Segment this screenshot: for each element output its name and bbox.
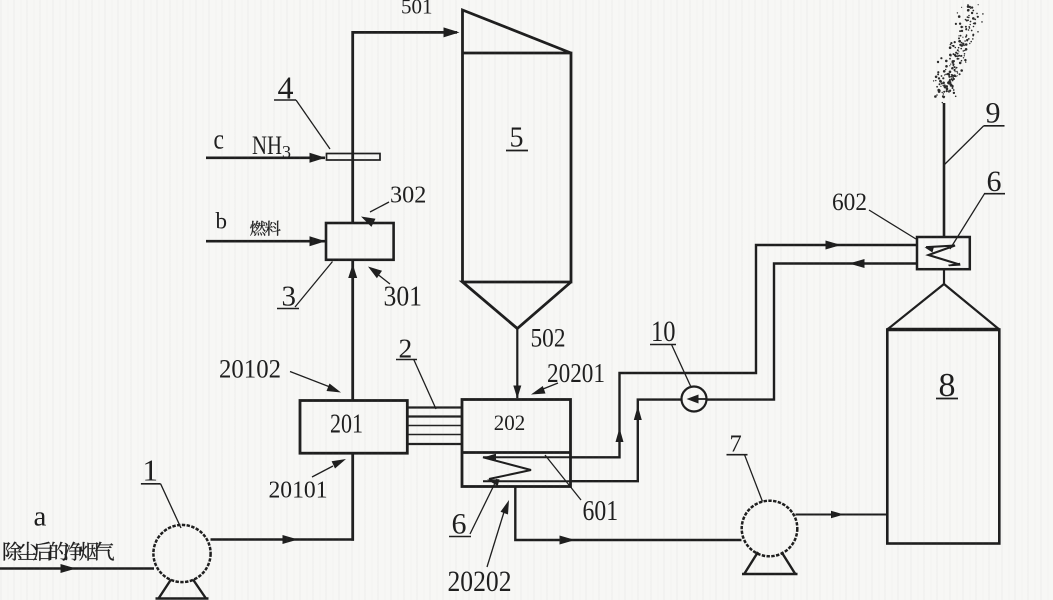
wire: main flue riser	[353, 32, 457, 540]
coil 601	[483, 457, 571, 481]
wire: fan1 discharge to riser	[211, 538, 355, 541]
svg-text:601: 601	[583, 496, 619, 527]
wire: 202 to 602 upper line	[571, 245, 918, 457]
smoke plume from chimney 9	[933, 4, 984, 103]
label: fuel	[250, 221, 281, 236]
wire: pump 7 discharge to vessel 8	[796, 514, 888, 516]
svg-text:b: b	[216, 209, 228, 234]
svg-text:6: 6	[452, 508, 467, 541]
svg-text:1: 1	[143, 453, 159, 488]
svg-text:a: a	[34, 501, 47, 533]
svg-text:201: 201	[330, 408, 363, 439]
pump 7	[742, 501, 798, 557]
svg-text:20101: 20101	[269, 477, 328, 504]
svg-text:9: 9	[986, 97, 1001, 130]
svg-text:10: 10	[651, 315, 676, 348]
circulation device 10	[682, 387, 707, 412]
label: dedusted clean flue gas	[4, 542, 114, 561]
svg-text:502: 502	[531, 324, 566, 353]
quench vessel 202	[462, 400, 571, 487]
burner 3	[326, 223, 394, 260]
wire: inlet flue-gas line a	[0, 567, 154, 570]
heat exchanger shell 201	[300, 401, 407, 454]
svg-text:202: 202	[494, 410, 526, 435]
svg-text:3: 3	[282, 142, 291, 162]
svg-text:c: c	[214, 124, 225, 156]
svg-text:20102: 20102	[219, 355, 281, 384]
svg-text:301: 301	[384, 281, 423, 313]
wire: 502 drop to 202	[516, 329, 518, 399]
svg-text:20202: 20202	[448, 565, 512, 598]
svg-text:501: 501	[401, 0, 433, 19]
svg-text:5: 5	[510, 123, 524, 154]
svg-text:602: 602	[832, 188, 867, 216]
heat exchanger 6 (602 coil box)	[917, 237, 970, 269]
tube bundle 2 (between 201 and 202)	[407, 408, 462, 445]
absorber vessel 8	[887, 284, 999, 330]
svg-text:302: 302	[390, 183, 426, 209]
wire: 202 to 602 lower line via 10	[571, 264, 918, 482]
reactor vessel 5	[463, 10, 572, 329]
fan 1	[153, 525, 210, 582]
injector 4	[327, 154, 381, 161]
wire: 202 bottom (20202) to pump 7	[515, 487, 741, 541]
chimney 9	[943, 103, 946, 238]
wire: NH3 feed line c	[206, 157, 325, 160]
svg-text:NH: NH	[252, 131, 282, 160]
svg-text:7: 7	[730, 431, 742, 458]
wire: fuel feed line b	[206, 240, 325, 243]
